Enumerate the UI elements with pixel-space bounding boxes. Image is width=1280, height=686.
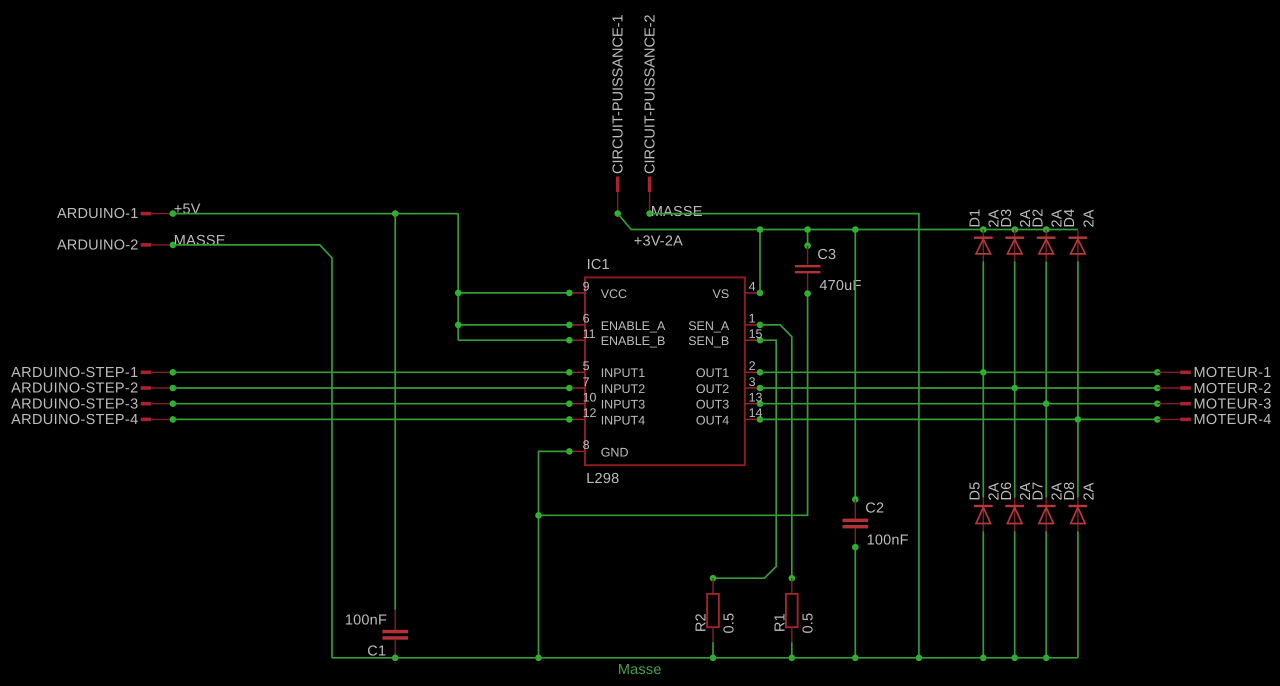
IC1 pin 6 ENABLE_A <box>566 312 666 333</box>
svg-text:ENABLE_A: ENABLE_A <box>601 319 666 333</box>
value 0.5 (R2) <box>722 613 738 634</box>
value 2A (D5) <box>987 482 1003 500</box>
connector pin MOTEUR-4 <box>1157 412 1271 428</box>
junction MOTEUR-1 <box>1154 369 1161 376</box>
svg-text:C3: C3 <box>817 247 836 263</box>
wire D6 to ground rail <box>1011 531 1018 661</box>
svg-text:D5: D5 <box>968 482 984 501</box>
svg-text:15: 15 <box>749 327 763 341</box>
wire to VCC pin <box>458 292 569 294</box>
connector pin ARDUINO-STEP-3 <box>11 396 173 412</box>
junction ARDUINO-1 <box>170 210 177 217</box>
IC1 pin 9 VCC <box>566 280 627 301</box>
svg-text:SEN_B: SEN_B <box>688 334 729 348</box>
svg-text:10: 10 <box>583 391 597 405</box>
wire OUT1 to MOTEUR-1 <box>760 371 1157 373</box>
svg-text:D3: D3 <box>999 209 1015 228</box>
junction +3V-2A / D2 <box>1043 226 1050 233</box>
wire D2 to MOTEUR-3 <box>1043 262 1050 408</box>
svg-text:ARDUINO-STEP-2: ARDUINO-STEP-2 <box>11 381 138 397</box>
svg-text:13: 13 <box>749 391 763 405</box>
connector pin ARDUINO-STEP-1 <box>11 365 173 381</box>
connector pin MOTEUR-3 <box>1157 397 1271 413</box>
wire C1 branch vertical <box>394 214 396 610</box>
junction ARDUINO-STEP-2 <box>170 385 177 392</box>
wire GND pin to rail <box>539 451 570 657</box>
svg-text:MOTEUR-2: MOTEUR-2 <box>1194 381 1272 397</box>
wire OUT2 to MOTEUR-2 <box>760 387 1157 389</box>
svg-text:D1: D1 <box>968 209 984 228</box>
junction CIRCUIT-PUISSANCE-1 <box>614 210 621 217</box>
diode D7 <box>1037 498 1056 532</box>
wire D3 to MOTEUR-2 <box>1011 262 1018 392</box>
connector pin MOTEUR-2 <box>1157 381 1271 397</box>
svg-text:+5V: +5V <box>174 202 201 218</box>
junction +5V / C1 branch <box>392 210 399 217</box>
junction ARDUINO-STEP-3 <box>170 400 177 407</box>
label C1 <box>367 643 386 659</box>
svg-text:6: 6 <box>583 312 590 326</box>
svg-text:VS: VS <box>713 287 730 301</box>
wire OUT3 to MOTEUR-3 <box>760 403 1157 405</box>
label C2 <box>865 500 884 516</box>
svg-text:5: 5 <box>583 359 590 373</box>
wire MOTEUR-3 to D7 <box>1045 404 1047 498</box>
label C3 <box>817 247 836 263</box>
value 2A (D1) <box>987 209 1003 227</box>
wire MOTEUR-2 to D6 <box>1014 388 1016 498</box>
IC1 pin 8 GND <box>566 438 628 459</box>
connector pin ARDUINO-2 <box>57 238 173 254</box>
wire +5V vertical to VCC/ENABLE <box>457 214 459 341</box>
svg-text:R1: R1 <box>772 613 788 632</box>
svg-text:ENABLE_B: ENABLE_B <box>601 334 666 348</box>
svg-text:D6: D6 <box>999 482 1015 501</box>
capacitor C1 <box>382 610 408 661</box>
svg-text:INPUT3: INPUT3 <box>601 398 646 412</box>
capacitor C3 <box>795 226 821 297</box>
svg-text:C1: C1 <box>367 643 386 659</box>
IC1 pin 5 INPUT1 <box>566 359 645 380</box>
wire D1 to MOTEUR-1 <box>980 262 987 376</box>
wire VS to +3V-2A <box>759 230 761 293</box>
wire SEN_A to R1 <box>760 325 792 578</box>
IC1 pin 12 INPUT4 <box>566 406 645 427</box>
svg-text:VCC: VCC <box>601 287 627 301</box>
diode D8 <box>1069 498 1088 532</box>
wire D7 to ground rail <box>1043 531 1050 661</box>
IC1 pin 3 OUT2 <box>696 375 763 396</box>
label D2 <box>1030 209 1046 228</box>
svg-text:D4: D4 <box>1062 209 1078 228</box>
svg-text:INPUT1: INPUT1 <box>601 366 646 380</box>
wire D5 to ground rail <box>980 531 987 661</box>
junction ARDUINO-STEP-1 <box>170 369 177 376</box>
IC1 pin 14 OUT4 <box>696 406 763 427</box>
IC1 pin 2 OUT1 <box>696 359 763 380</box>
svg-text:R2: R2 <box>694 613 710 632</box>
svg-text:1: 1 <box>749 312 756 326</box>
label IC1 <box>587 257 610 273</box>
connector pin ARDUINO-STEP-4 <box>11 412 173 428</box>
svg-text:Masse: Masse <box>618 662 662 678</box>
svg-text:3: 3 <box>749 375 756 389</box>
svg-text:7: 7 <box>583 375 590 389</box>
svg-text:IC1: IC1 <box>587 257 610 273</box>
wire ARDUINO-STEP-2 to INPUT2 <box>173 387 569 389</box>
junction VCC branch <box>455 290 462 297</box>
junction VS at rail <box>757 226 764 233</box>
junction ARDUINO-2 <box>170 242 177 249</box>
svg-text:0.5: 0.5 <box>800 613 816 634</box>
junction MOTEUR-2 <box>1154 385 1161 392</box>
wire +3V-2A rail <box>618 214 1078 230</box>
label L298 <box>586 471 619 487</box>
value 2A (D3) <box>1018 209 1034 227</box>
junction ARDUINO-STEP-4 <box>170 416 177 423</box>
diode D4 <box>1069 230 1088 262</box>
connector pin MOTEUR-1 <box>1157 365 1271 381</box>
label D7 <box>1030 482 1046 501</box>
net label MASSE (top) <box>651 204 703 220</box>
svg-text:MASSE: MASSE <box>174 233 226 249</box>
IC1 pin 4 VS <box>713 280 764 301</box>
junction MOTEUR-4 <box>1154 416 1161 423</box>
svg-text:INPUT4: INPUT4 <box>601 413 646 427</box>
junction MASSE at rail <box>916 655 923 662</box>
svg-text:ARDUINO-1: ARDUINO-1 <box>57 206 139 222</box>
wire ARDUINO-STEP-4 to INPUT4 <box>173 418 569 420</box>
svg-text:11: 11 <box>583 327 596 341</box>
wire ARDUINO-STEP-3 to INPUT3 <box>173 403 569 405</box>
wire GND branch to C3 <box>539 294 808 516</box>
svg-text:SEN_A: SEN_A <box>688 319 730 333</box>
wire MASSE from ARDUINO-2 <box>173 245 332 658</box>
svg-text:MASSE: MASSE <box>651 204 703 220</box>
connector pin CIRCUIT-PUISSANCE-2 <box>642 14 658 213</box>
junction +3V-2A / D1 <box>980 226 987 233</box>
label D1 <box>968 209 984 228</box>
junction +3V-2A / D3 <box>1011 226 1018 233</box>
svg-text:INPUT2: INPUT2 <box>601 382 646 396</box>
diode D2 <box>1037 230 1056 262</box>
wire MOTEUR-4 to D8 <box>1077 419 1079 497</box>
wire MOTEUR-1 to D5 <box>982 372 984 497</box>
svg-text:OUT4: OUT4 <box>696 413 729 427</box>
net label +3V-2A <box>634 233 683 249</box>
value 0.5 (R1) <box>800 613 816 634</box>
diode D5 <box>974 498 993 532</box>
capacitor C2 <box>843 496 869 550</box>
IC1 pin 15 SEN_B <box>688 327 763 348</box>
svg-text:14: 14 <box>749 406 763 420</box>
value 2A (D7) <box>1050 482 1066 500</box>
svg-text:OUT3: OUT3 <box>696 398 729 412</box>
junction MOTEUR-3 <box>1154 400 1161 407</box>
svg-text:2: 2 <box>749 359 756 373</box>
svg-text:D2: D2 <box>1030 209 1046 228</box>
svg-text:L298: L298 <box>586 471 619 487</box>
label D8 <box>1062 482 1078 501</box>
svg-text:CIRCUIT-PUISSANCE-2: CIRCUIT-PUISSANCE-2 <box>642 14 658 174</box>
value 2A (D2) <box>1050 209 1066 227</box>
wire to ENABLE_A pin <box>458 324 569 326</box>
label R1 <box>772 613 788 632</box>
wire C2 to rail <box>852 547 859 661</box>
svg-text:2A: 2A <box>1081 209 1097 227</box>
resistor R1 <box>786 575 798 661</box>
svg-text:ARDUINO-2: ARDUINO-2 <box>57 238 139 254</box>
wire to ENABLE_B pin <box>458 339 569 341</box>
svg-text:D7: D7 <box>1030 482 1046 501</box>
wire +3V-2A to C2 <box>852 226 859 499</box>
IC1 pin 7 INPUT2 <box>566 375 645 396</box>
svg-text:100nF: 100nF <box>345 613 387 629</box>
connector pin CIRCUIT-PUISSANCE-1 <box>611 14 627 213</box>
value 100nF (C1) <box>345 613 387 629</box>
connector pin ARDUINO-STEP-2 <box>11 381 173 397</box>
label D5 <box>968 482 984 501</box>
diode D6 <box>1005 498 1024 532</box>
svg-text:+3V-2A: +3V-2A <box>634 233 683 249</box>
svg-text:GND: GND <box>601 445 629 459</box>
svg-text:OUT1: OUT1 <box>696 366 729 380</box>
value 100nF (C2) <box>867 533 909 549</box>
value 2A (D6) <box>1018 482 1034 500</box>
net label +5V <box>174 202 201 218</box>
wire ground rail Masse <box>332 657 1078 659</box>
IC1 pin 13 OUT3 <box>696 391 763 412</box>
corner +3V-2A / D4 <box>0 0 1 1</box>
label D6 <box>999 482 1015 501</box>
svg-text:CIRCUIT-PUISSANCE-1: CIRCUIT-PUISSANCE-1 <box>611 14 627 174</box>
label D3 <box>999 209 1015 228</box>
svg-text:C2: C2 <box>865 500 884 516</box>
net label Masse <box>618 662 662 678</box>
svg-text:MOTEUR-3: MOTEUR-3 <box>1194 397 1272 413</box>
svg-text:100nF: 100nF <box>867 533 909 549</box>
label R2 <box>694 613 710 632</box>
value 2A (D8) <box>1081 482 1097 500</box>
svg-text:ARDUINO-STEP-3: ARDUINO-STEP-3 <box>11 396 138 412</box>
value 2A (D4) <box>1081 209 1097 227</box>
IC1 pin 10 INPUT3 <box>566 391 645 412</box>
svg-text:ARDUINO-STEP-1: ARDUINO-STEP-1 <box>11 365 138 381</box>
net label MASSE (arduino) <box>174 233 226 249</box>
diode D3 <box>1005 230 1024 262</box>
diode D1 <box>974 230 993 262</box>
label D4 <box>1062 209 1078 228</box>
wire OUT4 to MOTEUR-4 <box>760 418 1157 420</box>
svg-text:4: 4 <box>749 280 756 294</box>
wire D4 to MOTEUR-4 <box>1075 262 1082 423</box>
svg-text:MOTEUR-4: MOTEUR-4 <box>1194 412 1272 428</box>
svg-text:12: 12 <box>583 406 597 420</box>
junction GND at rail <box>535 655 542 662</box>
resistor R2 <box>707 575 719 661</box>
wire D8 to ground rail <box>1077 531 1079 657</box>
junction CIRCUIT-PUISSANCE-2 <box>646 210 653 217</box>
svg-text:D8: D8 <box>1062 482 1078 501</box>
wire ARDUINO-STEP-1 to INPUT1 <box>173 371 569 373</box>
junction ENABLE_A branch <box>455 322 462 329</box>
op-amp IC1 L298 body <box>585 277 745 465</box>
connector pin ARDUINO-1 <box>57 206 173 222</box>
svg-text:OUT2: OUT2 <box>696 382 729 396</box>
svg-text:9: 9 <box>583 280 590 294</box>
svg-text:ARDUINO-STEP-4: ARDUINO-STEP-4 <box>11 412 138 428</box>
junction GND branch <box>535 512 542 519</box>
wire +5V horizontal <box>173 213 458 215</box>
svg-text:2A: 2A <box>1081 482 1097 500</box>
wire SEN_B to R2 <box>713 340 776 578</box>
value 470uF <box>819 278 861 294</box>
svg-text:0.5: 0.5 <box>722 613 738 634</box>
svg-text:MOTEUR-1: MOTEUR-1 <box>1194 365 1272 381</box>
IC1 pin 11 ENABLE_B <box>566 327 665 348</box>
wire MASSE top horizontal and down <box>650 214 919 658</box>
svg-text:8: 8 <box>583 438 590 452</box>
IC1 pin 1 SEN_A <box>688 312 763 333</box>
